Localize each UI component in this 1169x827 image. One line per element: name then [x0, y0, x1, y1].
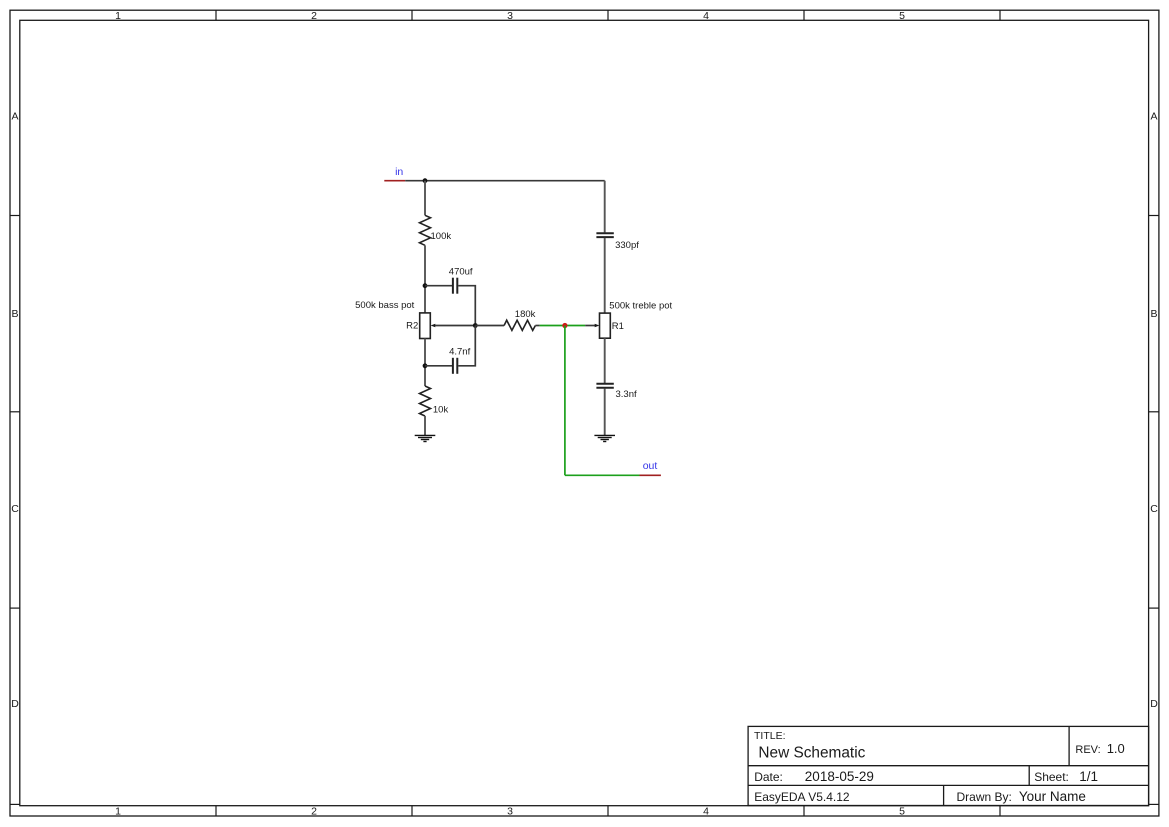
- frame row ticks right: [1149, 216, 1159, 805]
- wire top horizontal: [405, 180, 605, 182]
- node junction wiper: [473, 323, 478, 328]
- wire top right vertical to 330pf: [604, 181, 606, 233]
- potentiometer R1 body: [600, 313, 611, 338]
- capacitor 470uf: [453, 278, 457, 294]
- wire junction to 180k: [475, 325, 504, 327]
- frame column ticks bottom: [216, 806, 1000, 816]
- svg-text:Sheet:: Sheet:: [1034, 770, 1069, 784]
- wire 10k to ground: [424, 416, 426, 435]
- svg-text:500k bass pot: 500k bass pot: [355, 300, 415, 311]
- resistor 180k: [504, 320, 535, 330]
- wire R2 bottom: [424, 339, 426, 387]
- svg-text:5: 5: [899, 10, 905, 22]
- svg-text:TITLE:: TITLE:: [754, 730, 786, 742]
- svg-text:10k: 10k: [433, 405, 449, 416]
- wire 470uf right: [458, 286, 475, 326]
- wire left vertical top (to 100k): [424, 181, 426, 216]
- resistor 10k: [420, 386, 431, 416]
- potentiometer R2 body: [420, 313, 431, 339]
- net flag in (red stub): [384, 180, 405, 182]
- wire 470uf left: [425, 285, 452, 287]
- node junction at 4.7nf branch: [423, 363, 428, 368]
- svg-text:in: in: [395, 166, 403, 178]
- svg-text:3.3nf: 3.3nf: [616, 389, 637, 400]
- svg-text:3: 3: [507, 806, 513, 818]
- node junction at 470uf branch: [423, 283, 428, 288]
- svg-text:1: 1: [115, 806, 121, 818]
- wire R2 wiper to junction: [435, 325, 475, 327]
- frame row labels left: [11, 111, 19, 711]
- svg-text:5: 5: [899, 806, 905, 818]
- wire 180k right short black: [535, 325, 539, 327]
- svg-text:REV:: REV:: [1075, 744, 1100, 756]
- frame column ticks top: [216, 10, 1000, 20]
- wire 330pf to R1: [604, 238, 606, 313]
- svg-text:1/1: 1/1: [1079, 769, 1098, 784]
- wire R1 bottom to 3.3nf: [604, 338, 606, 383]
- wire 3.3nf to ground: [604, 389, 606, 436]
- svg-text:4: 4: [703, 806, 709, 818]
- wire 100k to R2: [424, 245, 426, 313]
- svg-text:C: C: [11, 503, 19, 515]
- svg-text:3: 3: [507, 10, 513, 22]
- node out junction (red): [562, 323, 567, 328]
- R2 wiper arrow: [431, 324, 436, 328]
- svg-text:Drawn By:: Drawn By:: [957, 790, 1012, 804]
- svg-text:470uf: 470uf: [449, 266, 473, 277]
- svg-text:4: 4: [703, 10, 709, 22]
- svg-text:A: A: [1150, 111, 1157, 123]
- svg-text:New Schematic: New Schematic: [758, 745, 865, 762]
- frame column labels bottom: [115, 806, 905, 818]
- frame row ticks left: [10, 216, 20, 805]
- svg-text:A: A: [11, 111, 18, 123]
- svg-text:1: 1: [115, 10, 121, 22]
- svg-text:2: 2: [311, 806, 317, 818]
- wire 4.7nf right: [458, 326, 475, 366]
- wire out vertical (green): [564, 326, 566, 476]
- wire out bottom horizontal (green): [565, 474, 640, 476]
- capacitor 330pf: [596, 233, 613, 237]
- net flag out (red stub): [640, 474, 661, 476]
- svg-text:100k: 100k: [431, 231, 452, 242]
- svg-text:R2: R2: [406, 321, 418, 332]
- svg-text:1.0: 1.0: [1107, 741, 1125, 756]
- svg-text:330pf: 330pf: [615, 240, 639, 251]
- svg-text:500k treble pot: 500k treble pot: [609, 301, 672, 312]
- title block box: [748, 726, 1149, 805]
- svg-text:D: D: [1150, 698, 1158, 710]
- svg-text:180k: 180k: [515, 309, 536, 320]
- svg-text:2: 2: [311, 10, 317, 22]
- capacitor 3.3nf: [596, 384, 613, 388]
- svg-text:D: D: [11, 698, 19, 710]
- wire 4.7nf left: [425, 365, 452, 367]
- frame row labels right: [1150, 111, 1158, 711]
- svg-text:C: C: [1150, 503, 1158, 515]
- capacitor 4.7nf: [453, 358, 457, 374]
- svg-text:EasyEDA V5.4.12: EasyEDA V5.4.12: [754, 790, 850, 804]
- svg-text:B: B: [1150, 308, 1157, 320]
- ground left: [415, 435, 436, 441]
- frame column labels top: [115, 10, 905, 22]
- svg-text:2018-05-29: 2018-05-29: [805, 769, 874, 784]
- R1 wiper arrow: [595, 324, 600, 328]
- svg-text:Your Name: Your Name: [1019, 789, 1086, 804]
- wire out net horizontal (green): [540, 325, 586, 327]
- svg-text:out: out: [643, 460, 658, 472]
- svg-text:B: B: [11, 308, 18, 320]
- ground right: [594, 435, 615, 441]
- wire to R1 wiper (black): [585, 325, 596, 327]
- resistor 100k: [420, 215, 431, 245]
- node junction at in: [423, 178, 428, 183]
- svg-text:Date:: Date:: [754, 770, 783, 784]
- svg-text:R1: R1: [612, 321, 624, 332]
- svg-text:4.7nf: 4.7nf: [449, 347, 470, 358]
